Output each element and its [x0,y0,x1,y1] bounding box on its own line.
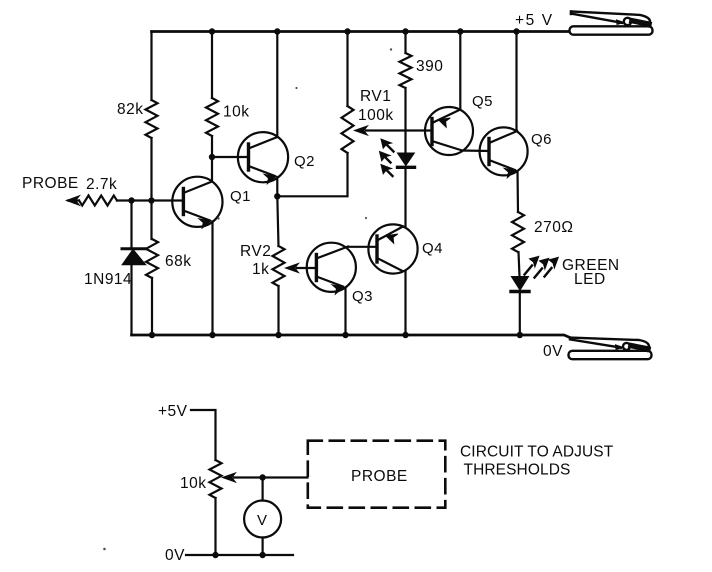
svg-text:0V: 0V [165,547,185,564]
junction Q1 emitter / 0V rail [209,332,215,338]
transistor Q2 [238,132,288,182]
green LED emission arrows [525,256,559,277]
junction wiper / voltmeter [259,474,265,480]
wire Q4 collector to 0V [404,272,406,335]
0V bottom rail [132,335,570,337]
svg-text:+5 V: +5 V [515,12,554,29]
transistor Q4 (PNP) [368,224,417,273]
svg-text:10k: 10k [180,475,207,492]
wire Q6 emitter to 270 [516,171,519,212]
potentiometer 10k sub [210,460,222,498]
wire 82k/68k column [150,32,153,336]
svg-text:82k: 82k [117,101,144,118]
junction 10k / Q2 base [209,154,215,160]
junction Q5 emitter / +5V rail [457,28,463,34]
resistor 10k [206,98,218,136]
resistor 2.7k [79,196,117,206]
svg-text:100k: 100k [358,107,394,124]
resistor 68k [146,239,158,278]
svg-text:1k: 1k [252,261,269,278]
svg-text:2.7k: 2.7k [86,176,117,193]
wire RV1 top [346,32,348,107]
svg-text:Q3: Q3 [352,288,373,305]
wire 10k column [211,32,213,181]
10k wiper arrow wire [234,476,308,478]
junction Q2 collector / +5V rail [274,28,280,34]
junction 390 / +5V rail [402,28,408,34]
svg-text:THRESHOLDS: THRESHOLDS [464,462,571,479]
svg-text:LED: LED [574,271,606,288]
wire junction to RV1 bottom [277,153,347,196]
junction 10k / sub 0V rail [212,552,218,558]
wire junction to RV2 top [277,196,278,246]
scan specks [103,48,392,550]
junction probe / 1N914 [128,197,134,203]
red LED [398,153,414,165]
svg-text:PROBE: PROBE [22,175,79,192]
svg-text:10k: 10k [223,104,250,121]
RV1 wiper arrow [366,129,432,131]
wire Q3 emitter to 0V [344,288,346,335]
junction RV1 / +5V rail [344,28,350,34]
alligator clip +5V [570,12,653,35]
svg-text:Q1: Q1 [230,188,251,205]
green LED [512,277,529,290]
sub 0V rail [186,554,293,556]
junction Q3 emitter / 0V rail [342,332,348,338]
svg-text:+5V: +5V [158,403,188,420]
wire green LED to 0V [519,292,521,335]
wire Q4 emitter up to LED [404,168,406,227]
svg-text:V: V [257,512,268,529]
wire 270 to green LED [519,252,520,277]
svg-text:PROBE: PROBE [351,468,408,485]
junction Q4 collector / 0V rail [402,332,408,338]
wire 390 to red LED [404,88,406,153]
junction probe / 68k column [148,197,154,203]
wire Q2 base [212,156,249,158]
svg-text:270Ω: 270Ω [534,219,573,236]
resistor 82k [146,100,158,138]
transistor Q1 [172,177,222,227]
red LED emission arrows [380,139,394,176]
wire Q5 emitter to +5V [459,32,461,110]
svg-text:Q5: Q5 [472,93,493,110]
junction green LED / 0V rail [517,332,523,338]
wire RV2 bottom to 0V [277,286,279,335]
wire Q2 emitter to junction [276,177,278,196]
transistor Q5 (PNP) [425,107,473,155]
svg-text:RV1: RV1 [360,88,391,105]
probe dashed box [308,441,446,508]
wire Q1 emitter to 0V [211,222,213,336]
svg-text:390: 390 [416,58,443,75]
wire 10k bottom to 0V [214,498,216,555]
svg-text:Q2: Q2 [294,153,315,170]
junction voltmeter / sub 0V rail [259,552,265,558]
alligator clip 0V [569,338,652,360]
svg-text:Q4: Q4 [422,240,443,257]
voltmeter V [244,501,281,538]
transistor Q3 [307,243,356,292]
svg-text:0V: 0V [543,343,563,360]
junction 10k column / +5V rail [209,28,215,34]
svg-text:CIRCUIT TO ADJUST: CIRCUIT TO ADJUST [460,444,614,461]
junction 68k / 0V rail [149,332,155,338]
wire Q5 collector to Q6 base [462,149,490,152]
wire Q6 collector to +5V [515,32,517,132]
sub-circuit +5V wire [191,410,216,460]
probe wire [68,199,183,201]
svg-text:RV2: RV2 [240,243,271,260]
transistor Q6 [480,127,528,175]
svg-text:1N914: 1N914 [84,271,132,288]
node Q2 emitter / RV1 / RV2 [274,193,280,199]
diode 1N914 [130,201,132,336]
svg-text:68k: 68k [165,253,192,270]
junction RV2 / 0V rail [275,332,281,338]
svg-text:Q6: Q6 [531,131,552,148]
resistor 390 [400,53,412,88]
wire 390 column top [404,32,406,54]
+5V top rail [152,30,569,33]
junction Q6 collector / +5V rail [513,28,519,34]
resistor 270 [512,212,524,252]
wire meter branch [262,478,264,556]
probe arrow [67,196,80,206]
wire Q3 collector to Q4 base [348,246,377,248]
wire Q2 collector to +5V [276,32,278,138]
potentiometer RV1 [342,106,354,153]
RV2 wiper arrow [297,267,316,269]
potentiometer RV2 [273,246,285,286]
